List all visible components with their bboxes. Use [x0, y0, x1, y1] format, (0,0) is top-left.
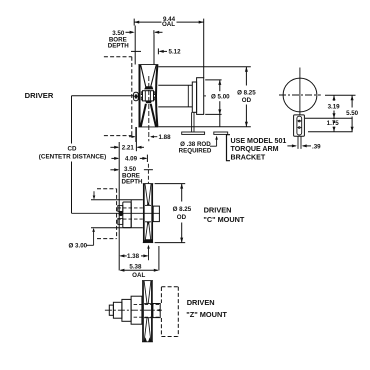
driver: extension lines for OAL — [134, 26, 136, 65]
svg-text:REQUIRED: REQUIRED — [179, 147, 212, 154]
torque rod below bracket — [297, 136, 299, 149]
z-mount pulley — [142, 281, 144, 342]
svg-text:DRIVEN: DRIVEN — [204, 205, 232, 214]
c-mount pilot cylinder — [91, 199, 143, 201]
svg-text:4.09: 4.09 — [125, 156, 138, 163]
svg-text:"Z" MOUNT: "Z" MOUNT — [186, 310, 227, 319]
driver set-screw knob — [134, 92, 139, 101]
svg-text:1.75: 1.75 — [327, 120, 340, 127]
driver: 9.44 OAL dimension — [133, 19, 135, 26]
driver motor body — [158, 84, 192, 86]
c-mount set screw dot — [119, 212, 123, 216]
driver torque rod — [191, 112, 193, 132]
svg-text:(CENTETR DISTANCE): (CENTETR DISTANCE) — [39, 154, 106, 161]
5.50 dimension — [351, 95, 353, 107]
svg-text:OD: OD — [177, 214, 187, 221]
end view vertical centerline — [299, 68, 301, 115]
c-mount 5.38 OAL dimension — [121, 269, 158, 271]
c-mount long extension line — [118, 142, 120, 270]
svg-text:Ø 8.25: Ø 8.25 — [237, 89, 256, 96]
svg-text:BRACKET: BRACKET — [231, 153, 266, 161]
end view circle — [283, 78, 317, 112]
z-mount bore dashed lines — [134, 303, 161, 305]
svg-text:Ø 5.00: Ø 5.00 — [211, 93, 230, 100]
c-mount 3.50 BORE DEPTH dimension — [110, 169, 118, 171]
svg-text:5.12: 5.12 — [169, 49, 182, 56]
driver: 5.12 dimension — [131, 50, 141, 52]
z-mount leader arrow — [157, 309, 160, 311]
driver pulley: right flange — [156, 65, 157, 127]
svg-text:DEPTH: DEPTH — [122, 179, 144, 186]
c-mount right hub — [153, 206, 159, 222]
svg-text:"C" MOUNT: "C" MOUNT — [203, 215, 245, 224]
.39 dimension — [287, 145, 295, 147]
driver dia 5.00 dimension — [205, 79, 221, 81]
torque arm bracket — [294, 115, 305, 136]
z-mount right hub — [153, 304, 160, 318]
driver pulley hub — [143, 91, 154, 101]
svg-text:1.88: 1.88 — [159, 134, 172, 141]
rod leader — [210, 145, 217, 147]
USE MODEL 501 note — [227, 135, 231, 161]
driver pulley centerline — [148, 76, 150, 141]
svg-text:1.38: 1.38 — [127, 253, 140, 260]
extension lines — [325, 94, 356, 96]
driver pulley: V-groove top — [141, 65, 146, 87]
svg-text:TORQUE ARM: TORQUE ARM — [231, 145, 279, 153]
svg-text:Ø 8.25: Ø 8.25 — [173, 206, 192, 213]
c-mount dashed bore box — [97, 188, 117, 190]
svg-text:CD: CD — [68, 146, 77, 153]
svg-text:3.19: 3.19 — [328, 104, 341, 111]
svg-text:.39: .39 — [312, 143, 321, 150]
driver pulley: rims — [138, 64, 158, 66]
c-mount pulley — [143, 184, 145, 243]
svg-text:2.21: 2.21 — [122, 145, 135, 152]
z-mount motor steps — [131, 296, 142, 324]
z-mount centerline — [105, 309, 162, 311]
driver dia 8.25 OD dimension — [158, 66, 251, 68]
driver pulley: V-groove bottom — [141, 104, 146, 127]
svg-text:OAL: OAL — [162, 21, 175, 28]
cap center tick — [204, 95, 206, 97]
c-mount 2.21 dimension — [110, 146, 118, 148]
3.19 dimension — [333, 95, 335, 101]
c-mount 4.09 dimension — [111, 157, 118, 159]
svg-text:Ø 3.00: Ø 3.00 — [69, 243, 88, 250]
1.75 dimension — [333, 117, 335, 120]
driver motor cap — [197, 78, 204, 115]
CD (center distance) line — [71, 96, 73, 144]
c-mount bushing — [118, 206, 123, 212]
svg-text:5.38: 5.38 — [129, 263, 142, 270]
C-mount centerline / CD elbow — [72, 212, 160, 214]
c-mount dia 8.25 OD dimension — [155, 183, 186, 185]
svg-text:DRIVEN: DRIVEN — [187, 298, 215, 307]
c-mount pulley centerline below — [148, 246, 150, 260]
driver pulley: left flange — [139, 65, 141, 127]
svg-text:5.50: 5.50 — [346, 110, 359, 117]
svg-text:OAL: OAL — [132, 272, 145, 279]
c-mount 1.38 dimension — [121, 255, 127, 257]
driver 1.88 dimension — [135, 127, 137, 142]
z-mount dashed clearance box — [160, 287, 162, 303]
svg-text:DRIVER: DRIVER — [25, 91, 54, 100]
end view horizontal centerline — [279, 94, 321, 96]
svg-text:USE MODEL 501: USE MODEL 501 — [231, 137, 287, 145]
c-mount bore dashed lines — [118, 207, 143, 209]
driver motor plate — [192, 82, 196, 112]
driver leader wire — [72, 95, 134, 97]
svg-text:OD: OD — [242, 97, 252, 104]
svg-text:DEPTH: DEPTH — [108, 43, 130, 50]
driver: dashed bore box — [104, 56, 132, 58]
